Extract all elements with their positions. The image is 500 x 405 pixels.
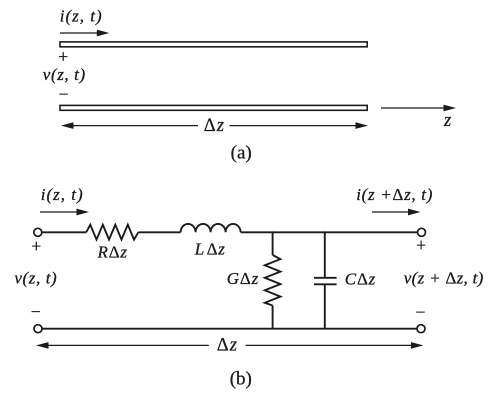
svg-text:LΔz: LΔz: [194, 239, 226, 258]
svg-text:Δz: Δz: [217, 336, 238, 356]
svg-text:+: +: [58, 47, 68, 67]
capacitor C delta-z plates: [314, 277, 337, 279]
svg-text:(a): (a): [231, 143, 252, 164]
svg-text:Δz: Δz: [204, 116, 225, 136]
svg-text:−: −: [31, 302, 41, 322]
current arrow i(z,t) part (a): [60, 30, 109, 37]
terminal circle bottom-left (b): [34, 325, 42, 333]
svg-text:RΔz: RΔz: [97, 243, 128, 262]
svg-text:i(z, t): i(z, t): [60, 6, 103, 25]
conductor bar bottom (a): [60, 105, 367, 110]
svg-text:CΔz: CΔz: [345, 269, 376, 288]
shunt wire C top: [324, 231, 326, 277]
wire top-left to resistor: [42, 231, 86, 233]
svg-text:v(z, t): v(z, t): [43, 65, 86, 84]
terminal circle top-right (b): [418, 228, 426, 236]
bottom wire (b): [42, 328, 417, 330]
z axis arrow: [381, 105, 456, 112]
wire inductor to right terminal: [241, 231, 418, 233]
svg-text:i(z +Δz, t): i(z +Δz, t): [356, 185, 433, 204]
svg-text:v(z, t): v(z, t): [14, 269, 57, 288]
shunt wire G bottom: [272, 306, 274, 330]
conductor bar top (a): [60, 42, 367, 47]
terminal circle bottom-right (b): [417, 325, 425, 333]
svg-text:i(z, t): i(z, t): [41, 185, 84, 204]
conductance G delta-z (vertical resistor): [265, 255, 281, 306]
svg-text:GΔz: GΔz: [227, 269, 259, 288]
svg-text:z: z: [443, 111, 451, 131]
inductor L delta-z: [181, 224, 241, 232]
current arrow i(z+dz,t) part (b): [372, 209, 421, 216]
svg-text:+: +: [31, 236, 41, 256]
terminal circle top-left (b): [34, 228, 42, 236]
wire resistor to inductor: [138, 231, 180, 233]
dimension arrow delta-z part (b): [36, 342, 423, 349]
svg-text:(b): (b): [230, 368, 252, 389]
shunt wire G top: [272, 231, 274, 255]
shunt wire C bottom: [324, 285, 326, 330]
svg-text:−: −: [415, 302, 425, 322]
current arrow i(z,t) part (b): [40, 209, 89, 216]
resistor R delta-z: [86, 225, 138, 240]
svg-text:+: +: [416, 235, 426, 255]
dimension arrow delta-z part (a): [61, 122, 368, 129]
svg-text:v(z + Δz, t): v(z + Δz, t): [404, 269, 484, 288]
svg-text:−: −: [59, 84, 69, 104]
